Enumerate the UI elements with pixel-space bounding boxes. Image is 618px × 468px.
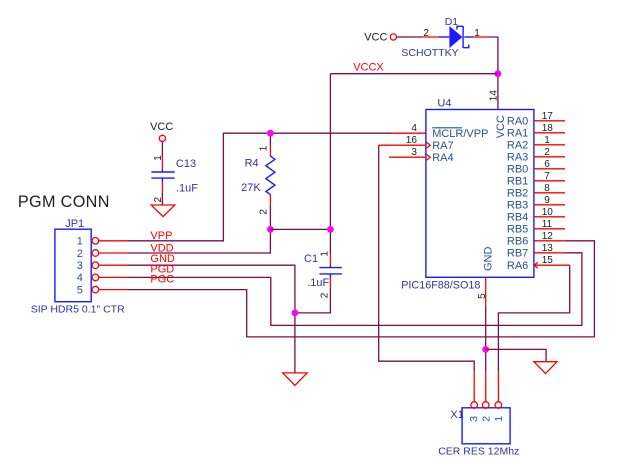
svg-text:RA1: RA1 [507, 128, 528, 140]
wire VPP to MCLR [128, 133, 392, 241]
wire R4 bottom to VDD node [269, 205, 271, 229]
node R4 bottom junction dot [267, 226, 274, 233]
ground (right of X1) [534, 362, 557, 374]
pin stub D1 pin 2 (red) [423, 36, 440, 38]
svg-text:6: 6 [544, 159, 550, 170]
svg-text:JP1: JP1 [65, 218, 84, 230]
svg-text:RA7: RA7 [432, 140, 453, 152]
svg-text:RA6: RA6 [507, 260, 528, 272]
svg-text:2: 2 [423, 28, 429, 39]
IC U4 PIC16F88 [401, 97, 534, 291]
svg-text:1: 1 [258, 145, 269, 151]
svg-text:4: 4 [411, 123, 417, 134]
svg-text:.1uF: .1uF [307, 277, 329, 289]
wire RA7 to X1 pin 3 [379, 145, 475, 371]
svg-text:1: 1 [544, 135, 550, 146]
svg-text:RB2: RB2 [507, 188, 528, 200]
svg-text:PGM CONN: PGM CONN [18, 193, 110, 211]
svg-text:C13: C13 [176, 158, 196, 170]
svg-text:2: 2 [544, 147, 550, 158]
wire VDD node to VCCX vertical [270, 228, 330, 230]
svg-text:18: 18 [542, 123, 554, 134]
svg-text:12: 12 [542, 231, 554, 242]
pin stub X1 pin 3 [473, 371, 475, 401]
svg-text:2: 2 [258, 209, 269, 215]
pin stub U4 pin 11 (RB5) [534, 228, 565, 230]
svg-text:.1uF: .1uF [176, 183, 198, 195]
pin stub JP1 pin 5 [99, 289, 128, 291]
svg-text:17: 17 [542, 111, 554, 122]
pin stub U4 pin 6 (RB0) [534, 168, 565, 170]
svg-text:VCC: VCC [495, 115, 507, 138]
wire PGC to RB6 [128, 241, 595, 337]
svg-text:4: 4 [77, 272, 83, 284]
resistor R4 [266, 146, 275, 205]
svg-text:RB1: RB1 [507, 176, 528, 188]
svg-text:RA3: RA3 [507, 152, 528, 164]
svg-text:PIC16F88/SO18: PIC16F88/SO18 [401, 280, 480, 292]
svg-text:7: 7 [544, 171, 550, 182]
node GND junction dot (X1 pin 2) [482, 346, 489, 353]
wire GND node to ground [486, 349, 546, 361]
svg-text:RB0: RB0 [507, 164, 528, 176]
svg-text:1: 1 [77, 236, 83, 248]
pin stub X1 pin 2 [485, 371, 487, 401]
pin stub U4 pin 2 (RA3) [534, 156, 565, 158]
node R4 top junction dot [267, 130, 274, 137]
wire VDD up to R4 bottom node [128, 229, 271, 253]
svg-text:1: 1 [474, 28, 480, 39]
pin stub U4 pin 17 (RA0) [534, 120, 565, 122]
svg-text:D1: D1 [445, 16, 459, 28]
node VCCX junction dot [495, 70, 502, 77]
pin stub U4 pin 8 (RB2) [534, 192, 565, 194]
pin stub JP1 pin 3 [99, 264, 128, 266]
pin stub JP1 pin 2 [99, 252, 128, 254]
svg-text:2: 2 [77, 248, 83, 260]
wire RA6 to X1 pin 1 [498, 265, 569, 371]
wire C1 bottom to GND node [295, 289, 331, 313]
svg-text:2: 2 [319, 292, 330, 298]
power symbol VCC (left, above C13) [150, 121, 173, 141]
pin stub U4 pin 13 [534, 252, 565, 254]
svg-text:SIP HDR5 0.1" CTR: SIP HDR5 0.1" CTR [31, 304, 125, 316]
pin name MCLR/VPP with overline [432, 128, 488, 140]
svg-text:9: 9 [544, 195, 550, 206]
pin stub U4 pin 9 (RB3) [534, 204, 565, 206]
svg-text:13: 13 [542, 243, 554, 254]
pin arrow RA4 [427, 154, 431, 160]
wire PGD to RB7 [128, 253, 582, 326]
pin stub U4 pin 4 [391, 132, 426, 134]
svg-text:VCC: VCC [364, 31, 387, 43]
svg-text:C1: C1 [304, 253, 318, 265]
svg-text:1: 1 [493, 416, 505, 422]
wire node to U4 pin 14 [497, 74, 499, 110]
pin stub U4 pin 15 (RA6) [534, 264, 570, 266]
svg-text:RB3: RB3 [507, 200, 528, 212]
capacitor C13 [151, 172, 174, 178]
pin stub X1 pin 1 [497, 371, 499, 401]
right side pin names [507, 116, 528, 272]
svg-text:1: 1 [153, 155, 164, 161]
wire D1 cathode to VCCX node [487, 37, 498, 74]
svg-text:10: 10 [542, 207, 554, 218]
pin stub C13 pin 1 [161, 158, 163, 170]
wire C13 to ground [161, 192, 163, 204]
svg-text:3: 3 [77, 260, 83, 272]
svg-text:15: 15 [542, 255, 554, 266]
svg-text:VCCX: VCCX [353, 61, 384, 73]
wire VCCX horizontal [330, 73, 498, 75]
svg-text:SCHOTTKY: SCHOTTKY [401, 47, 458, 59]
svg-text:8: 8 [544, 183, 550, 194]
wire R4 top to MCLR net [269, 133, 271, 146]
wire VCC to C13 [161, 142, 163, 158]
svg-text:MCLR/VPP: MCLR/VPP [432, 128, 488, 140]
pin stub C13 pin 2 [161, 178, 163, 182]
svg-text:RA0: RA0 [507, 116, 528, 128]
svg-text:27K: 27K [241, 182, 261, 194]
svg-text:PGC: PGC [150, 273, 174, 285]
pin stub U4 pin 10 (RB4) [534, 216, 565, 218]
pin stub U4 pin 7 (RB1) [534, 180, 565, 182]
pin stub U4 pin 18 (RA1) [534, 132, 565, 134]
wire VCC circle to D1 pin 2 [397, 36, 424, 38]
pin stub U4 pin 1 (RA2) [534, 144, 565, 146]
svg-text:CER RES 12Mhz: CER RES 12Mhz [438, 445, 519, 457]
power symbol VCC (top, at D1 anode) [364, 31, 396, 43]
svg-text:2: 2 [480, 416, 492, 422]
ground (below C1 / JP1 GND) [283, 373, 307, 386]
connector JP1 [55, 218, 99, 302]
svg-text:RA4: RA4 [432, 152, 453, 164]
wire VCCX vertical down to C1 [329, 74, 331, 255]
svg-text:U4: U4 [437, 97, 451, 109]
pin stub D1 pin 1 (red) [473, 36, 487, 38]
diode D1 (schottky, blue) [439, 26, 474, 48]
svg-text:RB5: RB5 [507, 224, 528, 236]
pin stub U4 pin 12 [534, 240, 565, 242]
svg-text:5: 5 [77, 284, 83, 296]
svg-text:1: 1 [319, 251, 330, 257]
svg-text:RA2: RA2 [507, 140, 528, 152]
svg-text:RB7: RB7 [507, 248, 528, 260]
pin stub U4 pin 16 [379, 144, 426, 146]
svg-text:VCC: VCC [150, 121, 173, 133]
pin arrow RA6 [534, 262, 538, 268]
node VCCX/C1 junction dot [327, 226, 334, 233]
svg-text:R4: R4 [245, 158, 259, 170]
pin stub JP1 pin 1 [99, 240, 128, 242]
svg-text:11: 11 [542, 219, 553, 230]
ground (below C13) [151, 205, 175, 217]
node GND/C1 junction dot [292, 310, 299, 317]
svg-text:GND: GND [482, 247, 494, 272]
svg-text:3: 3 [468, 416, 480, 422]
pin stub U4 pin 3 (RA4, unconnected) [389, 156, 426, 158]
wire U4 GND pin 5 down [485, 277, 487, 305]
svg-text:RB6: RB6 [507, 236, 528, 248]
pin stub JP1 pin 4 [99, 276, 128, 278]
resonator X1 [450, 402, 510, 444]
pin arrow RA7 [427, 142, 431, 148]
wire GND to ground [128, 265, 295, 373]
svg-text:14: 14 [488, 90, 499, 102]
capacitor C1 [319, 254, 342, 288]
svg-text:5: 5 [477, 293, 488, 299]
svg-text:RB4: RB4 [507, 212, 528, 224]
